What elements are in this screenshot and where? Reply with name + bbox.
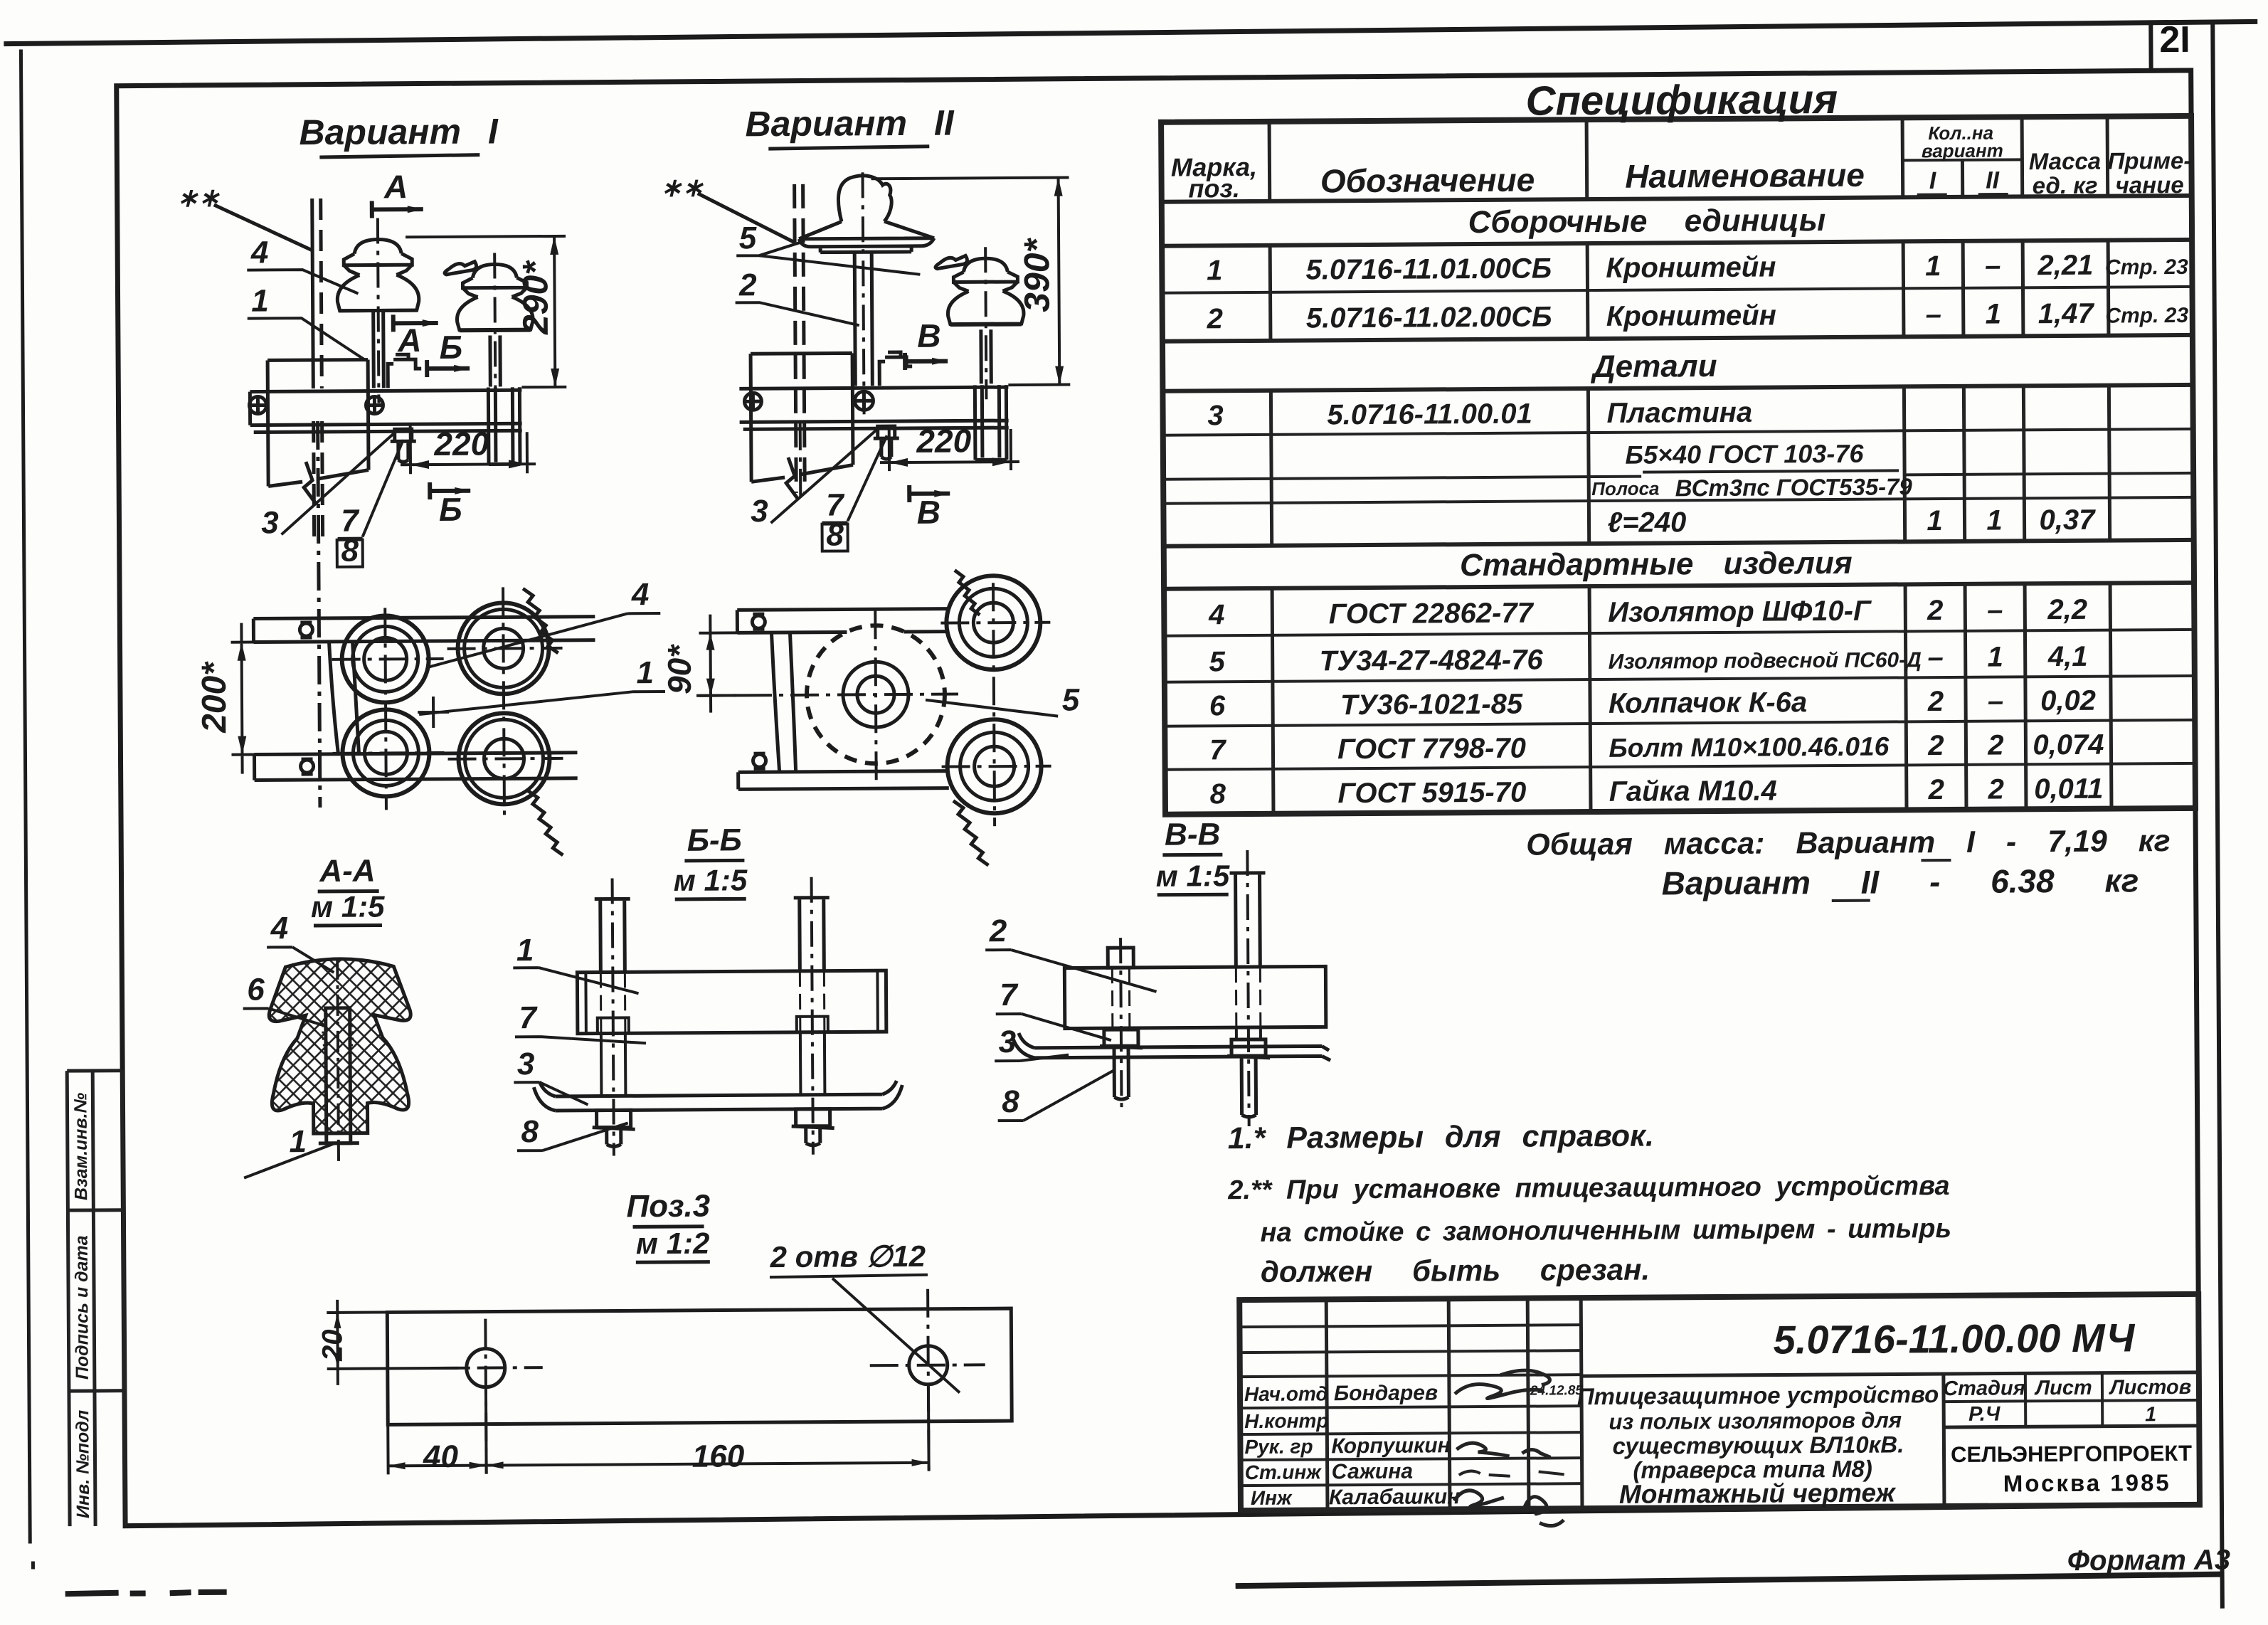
- svg-text:3: 3: [517, 1047, 535, 1081]
- svg-text:м 1:5: м 1:5: [1156, 859, 1230, 893]
- svg-text:Стандартные изделия: Стандартные изделия: [1460, 546, 1853, 583]
- svg-text:0,37: 0,37: [2039, 504, 2096, 536]
- svg-text:1.* Размеры для справок.: 1.* Размеры для справок.: [1228, 1119, 1654, 1156]
- svg-text:40: 40: [423, 1439, 459, 1474]
- svg-text:Вариант II - 6.38 кг: Вариант II - 6.38 кг: [1661, 862, 2139, 901]
- svg-text:Вариант I: Вариант I: [299, 111, 499, 152]
- svg-text:7: 7: [519, 1000, 538, 1035]
- svg-text:м 1:5: м 1:5: [674, 863, 748, 897]
- svg-text:Н.контр: Н.контр: [1244, 1409, 1328, 1432]
- svg-text:Детали: Детали: [1590, 349, 1717, 384]
- svg-text:1: 1: [1925, 250, 1941, 282]
- svg-text:1: 1: [251, 283, 269, 318]
- svg-text:2.** При установке птицезащитн: 2.** При установке птицезащитного устрой…: [1227, 1171, 1950, 1205]
- svg-text:Б: Б: [439, 491, 462, 528]
- svg-text:Инв. №подл: Инв. №подл: [73, 1409, 93, 1518]
- svg-text:Москва 1985: Москва 1985: [2003, 1469, 2171, 1496]
- svg-text:290*: 290*: [515, 260, 556, 336]
- svg-text:1: 1: [1985, 299, 2001, 330]
- svg-text:5.0716-11.00.00 МЧ: 5.0716-11.00.00 МЧ: [1773, 1315, 2135, 1362]
- svg-text:5.0716-11.02.00СБ: 5.0716-11.02.00СБ: [1306, 301, 1552, 334]
- svg-text:0,074: 0,074: [2033, 729, 2104, 761]
- svg-text:4: 4: [631, 577, 650, 612]
- svg-text:Формат А3: Формат А3: [2067, 1545, 2230, 1577]
- svg-text:5.0716-11.01.00СБ: 5.0716-11.01.00СБ: [1305, 253, 1552, 285]
- svg-text:Пластина: Пластина: [1606, 397, 1752, 429]
- svg-text:Корпушкин: Корпушкин: [1331, 1434, 1450, 1458]
- svg-text:Монтажный чертеж: Монтажный чертеж: [1619, 1478, 1897, 1508]
- svg-text:на стойке с замоноличенным шты: на стойке с замоноличенным штырем - штыр…: [1260, 1214, 1951, 1248]
- svg-text:160: 160: [692, 1439, 745, 1473]
- svg-text:Наименование: Наименование: [1625, 157, 1865, 195]
- svg-text:4: 4: [250, 235, 269, 270]
- svg-text:Поз.3: Поз.3: [626, 1189, 710, 1224]
- svg-text:3: 3: [261, 505, 279, 540]
- svg-text:ГОСТ 22862-77: ГОСТ 22862-77: [1329, 598, 1535, 630]
- svg-text:должен быть срезан.: должен быть срезан.: [1261, 1253, 1650, 1288]
- svg-text:–: –: [1988, 686, 2004, 717]
- svg-text:Сажина: Сажина: [1332, 1460, 1414, 1484]
- svg-text:Болт М10×100.46.016: Болт М10×100.46.016: [1609, 732, 1889, 763]
- svg-text:0,02: 0,02: [2040, 685, 2096, 716]
- svg-text:из полых изоляторов для: из полых изоляторов для: [1609, 1407, 1902, 1434]
- svg-text:Масса: Масса: [2029, 148, 2102, 175]
- svg-text:ℓ=240: ℓ=240: [1607, 507, 1686, 539]
- svg-text:Изолятор ШФ10-Г: Изолятор ШФ10-Г: [1608, 596, 1872, 628]
- svg-text:200*: 200*: [196, 661, 234, 734]
- svg-text:–: –: [1927, 642, 1944, 673]
- svg-text:1: 1: [1987, 642, 2003, 673]
- svg-text:3: 3: [751, 494, 768, 529]
- svg-text:ТУ36-1021-85: ТУ36-1021-85: [1340, 689, 1523, 721]
- svg-text:2: 2: [1927, 730, 1944, 761]
- svg-text:В: В: [917, 317, 941, 354]
- svg-text:220: 220: [433, 425, 489, 462]
- svg-text:СЕЛЬЭНЕРГОПРОЕКТ: СЕЛЬЭНЕРГОПРОЕКТ: [1951, 1441, 2192, 1467]
- svg-text:Инж: Инж: [1251, 1487, 1293, 1509]
- svg-text:2,21: 2,21: [2037, 250, 2093, 281]
- svg-text:II: II: [1986, 167, 2001, 194]
- svg-text:7: 7: [1000, 978, 1019, 1012]
- svg-text:2: 2: [1927, 595, 1944, 626]
- svg-text:7: 7: [1209, 734, 1226, 766]
- svg-text:1: 1: [516, 933, 534, 968]
- svg-text:Стадия: Стадия: [1943, 1377, 2025, 1400]
- svg-text:390*: 390*: [1017, 237, 1057, 312]
- svg-text:м 1:5: м 1:5: [311, 889, 385, 923]
- svg-text:8: 8: [1210, 778, 1226, 810]
- svg-text:5: 5: [1209, 646, 1225, 677]
- svg-text:Б5×40 ГОСТ 103-76: Б5×40 ГОСТ 103-76: [1625, 439, 1864, 470]
- svg-text:–: –: [1925, 299, 1941, 330]
- svg-text:А-А: А-А: [319, 854, 376, 889]
- svg-text:∗∗: ∗∗: [660, 173, 704, 202]
- svg-text:2I: 2I: [2159, 19, 2190, 60]
- svg-text:4,1: 4,1: [2047, 641, 2088, 672]
- svg-text:220: 220: [916, 422, 971, 459]
- svg-text:Сборочные единицы: Сборочные единицы: [1468, 203, 1826, 240]
- svg-text:Стр. 23: Стр. 23: [2105, 255, 2188, 280]
- svg-text:4: 4: [1208, 599, 1225, 630]
- svg-text:Листов: Листов: [2109, 1376, 2192, 1399]
- svg-text:ед. кг: ед. кг: [2033, 172, 2098, 199]
- svg-text:2: 2: [1988, 774, 2005, 805]
- svg-text:Ст.инж: Ст.инж: [1245, 1461, 1323, 1483]
- svg-text:6: 6: [1209, 690, 1226, 721]
- svg-text:ГОСТ 5915-70: ГОСТ 5915-70: [1337, 777, 1526, 810]
- svg-text:∗∗: ∗∗: [176, 183, 220, 212]
- svg-text:8: 8: [521, 1114, 539, 1149]
- svg-text:м 1:2: м 1:2: [636, 1227, 710, 1261]
- svg-text:90*: 90*: [661, 644, 698, 694]
- svg-text:20: 20: [317, 1329, 348, 1362]
- svg-text:Рук. гр: Рук. гр: [1244, 1435, 1313, 1458]
- svg-text:Полоса: Полоса: [1591, 477, 1659, 499]
- svg-text:Изолятор подвесной ПС60-Д: Изолятор подвесной ПС60-Д: [1609, 648, 1922, 674]
- svg-text:3: 3: [999, 1025, 1017, 1059]
- svg-text:2: 2: [989, 914, 1007, 948]
- svg-text:2: 2: [1927, 686, 1944, 717]
- svg-text:Обозначение: Обозначение: [1320, 162, 1535, 200]
- svg-text:ГОСТ 7798-70: ГОСТ 7798-70: [1337, 733, 1526, 766]
- svg-text:2: 2: [1207, 303, 1224, 334]
- svg-text:5.0716-11.00.01: 5.0716-11.00.01: [1327, 398, 1532, 431]
- svg-text:Бондарев: Бондарев: [1334, 1381, 1438, 1405]
- svg-text:1: 1: [2145, 1403, 2156, 1426]
- svg-text:1: 1: [1986, 505, 2003, 536]
- svg-text:Спецификация: Спецификация: [1525, 76, 1838, 125]
- svg-text:А: А: [397, 322, 422, 359]
- svg-text:2: 2: [1928, 774, 1945, 805]
- svg-text:–: –: [1987, 595, 2003, 626]
- svg-text:Приме-: Приме-: [2107, 147, 2191, 174]
- svg-text:–: –: [1985, 250, 2001, 282]
- svg-text:1,47: 1,47: [2038, 298, 2095, 329]
- svg-text:Кронштейн: Кронштейн: [1606, 300, 1776, 332]
- svg-text:Общая масса: Вариант I - 7,19: Общая масса: Вариант I - 7,19 кг: [1526, 824, 2171, 862]
- svg-text:ТУ34-27-4824-76: ТУ34-27-4824-76: [1320, 644, 1544, 677]
- svg-text:2: 2: [738, 268, 757, 302]
- svg-text:4: 4: [270, 911, 289, 946]
- svg-text:Калабашкин: Калабашкин: [1329, 1485, 1461, 1509]
- svg-text:Нач.отд: Нач.отд: [1244, 1382, 1328, 1405]
- svg-text:3: 3: [1207, 400, 1224, 431]
- svg-text:поз.: поз.: [1188, 174, 1240, 203]
- svg-text:5: 5: [739, 221, 757, 255]
- svg-text:В: В: [917, 494, 941, 531]
- svg-text:чание: чание: [2116, 171, 2184, 199]
- svg-text:1: 1: [636, 655, 654, 690]
- svg-text:Лист: Лист: [2034, 1377, 2092, 1399]
- svg-text:Стр. 23: Стр. 23: [2105, 304, 2188, 328]
- svg-text:Б: Б: [440, 329, 463, 366]
- svg-text:2: 2: [1987, 730, 2004, 761]
- svg-text:Колпачок К-6а: Колпачок К-6а: [1609, 687, 1807, 719]
- svg-text:2 отв ∅12: 2 отв ∅12: [769, 1239, 926, 1274]
- svg-text:Подпись и дата: Подпись и дата: [72, 1235, 92, 1380]
- svg-text:8: 8: [1002, 1084, 1019, 1119]
- svg-text:Гайка М10.4: Гайка М10.4: [1609, 775, 1777, 807]
- svg-text:Р.Ч: Р.Ч: [1968, 1403, 2001, 1426]
- svg-text:ВСт3пс ГОСТ535-79: ВСт3пс ГОСТ535-79: [1675, 473, 1913, 501]
- svg-text:2,2: 2,2: [2047, 594, 2087, 625]
- svg-text:Взам.инв.№: Взам.инв.№: [70, 1092, 91, 1200]
- svg-text:0,011: 0,011: [2034, 773, 2103, 805]
- svg-text:6: 6: [247, 972, 265, 1007]
- svg-text:вариант: вариант: [1922, 140, 2003, 162]
- svg-text:Птицезащитное устройство: Птицезащитное устройство: [1577, 1381, 1939, 1409]
- svg-text:Вариант II: Вариант II: [745, 103, 955, 144]
- svg-text:А: А: [383, 168, 408, 205]
- svg-text:В-В: В-В: [1165, 817, 1221, 852]
- svg-text:1: 1: [1927, 505, 1943, 536]
- svg-text:5: 5: [1062, 682, 1080, 717]
- svg-text:Кронштейн: Кронштейн: [1606, 251, 1776, 283]
- svg-text:1: 1: [1207, 255, 1223, 286]
- svg-text:Б-Б: Б-Б: [687, 822, 742, 857]
